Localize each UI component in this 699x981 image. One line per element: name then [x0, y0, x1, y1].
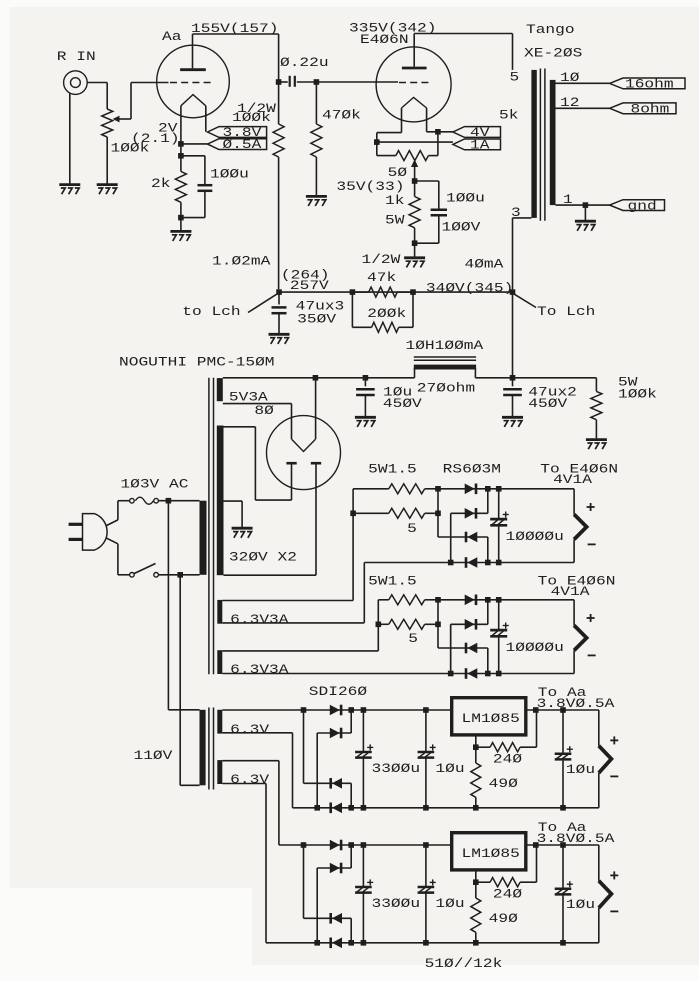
wire winding4 top to sec4: [222, 760, 279, 762]
svg-text:Ø.5A: Ø.5A: [223, 137, 262, 152]
wire switch to PT: [158, 574, 199, 576]
PT2 core: [208, 708, 210, 790]
node 490 bottom (reg sec3): [473, 805, 479, 811]
wire B+ down to filter: [512, 292, 514, 378]
node 4V tag junction: [435, 129, 441, 135]
svg-text:1ØØk: 1ØØk: [618, 387, 657, 402]
node 10u top (reg sec4): [423, 842, 429, 848]
node ADJ (reg sec4): [473, 879, 479, 885]
node 47ux2 junction: [510, 375, 516, 381]
svg-text:1k: 1k: [385, 193, 405, 208]
svg-text:4V1A: 4V1A: [553, 472, 592, 487]
PT2 6.3V winding 1: [217, 710, 222, 734]
node out 10u bottom (reg sec4): [560, 940, 566, 946]
ground (V2 cathode): [404, 256, 425, 259]
svg-text:49Ø: 49Ø: [489, 911, 518, 926]
svg-text:1ØØu: 1ØØu: [210, 167, 249, 182]
PT HV winding 320Vx2: [217, 426, 224, 576]
diode D4 (reg sec4): [329, 938, 332, 949]
output connector (heater sec1): [573, 489, 575, 515]
capacitor 10000u (heater sec1): [498, 489, 500, 519]
output connector (reg sec4): [598, 845, 600, 881]
svg-text:6.3V3A: 6.3V3A: [230, 612, 289, 627]
wire AC to lower PT primary top: [167, 501, 169, 710]
wire AC2 vertical (heater sec2): [450, 624, 452, 673]
label + (output) (heater sec2): [587, 617, 595, 619]
resistor 490 (reg sec3): [475, 747, 477, 763]
wire rail after choke: [475, 377, 596, 379]
node 10u top (reg sec3): [423, 707, 429, 713]
OPT secondary winding: [550, 80, 556, 205]
ground (V1 cathode): [170, 230, 191, 233]
tag 16ohm: [610, 78, 685, 89]
node + rail (reg sec3): [348, 707, 354, 713]
RCA input jack J1: [64, 71, 88, 95]
label + (out) (reg sec3): [610, 739, 618, 741]
svg-text:5: 5: [407, 521, 417, 536]
node - rail row4 (reg sec3): [348, 805, 354, 811]
svg-text:24Ø: 24Ø: [493, 752, 522, 767]
capacitor 10u (in) (reg sec3): [425, 710, 427, 751]
wire cathode to 0.5A tag: [181, 143, 208, 145]
svg-text:1.Ø2mA: 1.Ø2mA: [212, 254, 271, 269]
label - (output) (heater sec2): [588, 654, 596, 656]
node AC2 row4 (reg sec4): [314, 940, 320, 946]
svg-text:8ohm: 8ohm: [631, 102, 670, 117]
diode D1 (reg sec3): [330, 705, 340, 716]
svg-text:Ø.22u: Ø.22u: [280, 55, 329, 70]
V1 filament/cathode: [181, 95, 206, 106]
node D4 row AC2 (heater sec1): [448, 560, 454, 566]
node rectifier output: [313, 375, 319, 381]
svg-text:5Ø: 5Ø: [388, 165, 408, 180]
resistor R3 2k: [175, 171, 186, 202]
wire winding2 top to sec2: [222, 650, 378, 652]
svg-text:34ØV(345): 34ØV(345): [426, 281, 513, 296]
tag 1A: [453, 139, 501, 150]
ground (input jack): [59, 183, 80, 186]
wire V3 fil right leg: [315, 378, 317, 439]
wire bridge row3 (heater sec2): [438, 647, 488, 649]
node ADJ (reg sec3): [473, 744, 479, 750]
svg-text:5: 5: [510, 70, 520, 85]
diode D1 (heater sec2): [465, 595, 475, 606]
node D4 row AC2 (heater sec2): [448, 671, 454, 677]
svg-text:1Ø: 1Ø: [560, 70, 580, 85]
resistor 240 (reg sec4): [476, 881, 490, 883]
wire jack to volume pot: [87, 82, 107, 84]
svg-text:1ØØØØu: 1ØØØØu: [506, 529, 564, 544]
PT core: [208, 378, 210, 674]
wire OPT pin1: [556, 204, 610, 206]
fuse F1: [130, 498, 135, 503]
node filter cap bottom (heater sec2): [496, 671, 502, 677]
wire row3 (reg sec4): [304, 917, 352, 919]
PT primary winding: [200, 501, 207, 575]
diode D3 (heater sec1): [465, 532, 468, 543]
node lower AC junction: [177, 572, 183, 578]
wire regulator output (reg sec4): [526, 844, 599, 846]
capacitor 10u (in) (reg sec4): [425, 845, 427, 886]
svg-text:to Lch: to Lch: [182, 304, 240, 319]
switch SW1: [130, 573, 135, 578]
node B+ 340V: [510, 289, 516, 295]
node plate/coupling junction: [276, 79, 282, 85]
wire input rail row1 (reg sec3): [222, 709, 451, 711]
OPT core: [539, 69, 541, 221]
regulator U LM1085 box (reg sec4): [452, 833, 526, 870]
pot wiper arrow: [113, 116, 120, 123]
diode D4 (reg sec3): [329, 803, 332, 814]
node 490 bottom (reg sec4): [473, 940, 479, 946]
label + (output) (heater sec1): [587, 506, 595, 508]
node resistor pair right (heater sec2): [435, 622, 441, 628]
svg-text:Aa: Aa: [162, 29, 182, 44]
svg-text:6.3V3A: 6.3V3A: [230, 662, 289, 677]
node R3/C2 bottom junction: [178, 215, 184, 221]
label - (out) (reg sec3): [610, 775, 618, 777]
diode D2 (reg sec4): [330, 863, 340, 874]
node 240 top (reg sec3): [533, 707, 539, 713]
svg-text:XE-2ØS: XE-2ØS: [524, 46, 583, 61]
diode D3 (reg sec3): [329, 778, 332, 789]
node resistor pair right top (heater sec2): [435, 597, 441, 603]
svg-text:4V1A: 4V1A: [551, 584, 590, 599]
wire AC1 vertical (heater sec1): [437, 489, 439, 537]
wire ADJ pin (reg sec4): [475, 870, 477, 882]
wire V2 fil right leg: [426, 108, 428, 132]
ground (R8): [586, 438, 607, 441]
diode D1 (reg sec4): [330, 840, 340, 851]
svg-text:2ØØk: 2ØØk: [367, 306, 406, 321]
node AC1 (reg sec3): [301, 707, 307, 713]
choke 10H100mA: [414, 368, 416, 378]
svg-text:5W1.5: 5W1.5: [368, 462, 417, 477]
svg-text:1Øu: 1Øu: [566, 897, 595, 912]
wire to 1A tag: [377, 141, 453, 143]
wire hum pot right: [437, 132, 439, 156]
wire To Lch (diagonal): [515, 294, 537, 307]
wire AC2 vertical (reg sec3): [316, 733, 318, 808]
wire V2 fil left leg: [401, 108, 403, 133]
capacitor 10u (out) (reg sec4): [562, 845, 564, 888]
V3 right plate: [311, 462, 321, 465]
node V1 cathode bias point: [178, 141, 184, 147]
ground (C4): [269, 333, 290, 336]
wire right plate to HV bottom: [224, 574, 317, 576]
wire row2 (reg sec4): [317, 867, 351, 869]
diode D2 (reg sec3): [330, 728, 340, 739]
wire winding1 top to sec1: [222, 600, 353, 602]
svg-text:33ØØu: 33ØØu: [372, 761, 421, 776]
wire regulator output (reg sec3): [526, 709, 599, 711]
PT 5V3A winding: [217, 378, 223, 401]
node R5/C3 bottom: [412, 240, 418, 246]
node D3 anode (heater sec2): [485, 671, 491, 677]
PT2 primary winding: [200, 710, 206, 786]
svg-text:LM1Ø85: LM1Ø85: [462, 846, 520, 861]
svg-text:To Lch: To Lch: [537, 304, 595, 319]
tag gnd: [610, 200, 665, 211]
node B+ 257V: [276, 289, 282, 295]
wire row2 (reg sec3): [317, 732, 351, 734]
capacitor C5 10u 450V: [364, 378, 366, 387]
diode D3 (reg sec4): [329, 913, 332, 924]
svg-text:6.3V: 6.3V: [230, 772, 269, 787]
wire to Lch (diagonal): [248, 294, 277, 312]
svg-text:1Øu: 1Øu: [435, 896, 464, 911]
resistor R2 100k 1/2W (plate load): [273, 124, 284, 157]
V2 grid (dashed): [399, 82, 432, 84]
ground (C5): [355, 416, 376, 419]
regulator U LM1085 box (reg sec3): [452, 698, 526, 735]
node 1A junction: [374, 139, 380, 145]
resistor R7 200k: [351, 292, 353, 327]
V2 plate: [402, 67, 427, 70]
svg-text:1/2W: 1/2W: [362, 252, 401, 267]
node AC1 (reg sec4): [301, 842, 307, 848]
svg-text:1: 1: [563, 192, 573, 207]
svg-text:1ØØØØu: 1ØØØØu: [506, 640, 564, 655]
wire 335V plate rail: [414, 33, 512, 35]
wire main B+ filter rail: [223, 377, 415, 379]
hum pot 50 ohm: [396, 151, 429, 161]
capacitor 3300u (reg sec4): [362, 845, 364, 886]
capacitor C3 100u 100V: [415, 180, 439, 182]
svg-text:6.3V: 6.3V: [230, 722, 269, 737]
V3 left plate: [286, 462, 296, 465]
wire bridge row1 (heater sec2): [438, 599, 574, 601]
node cathode bias node 35V: [412, 178, 418, 184]
wire plug lower: [106, 538, 118, 544]
node pin1 ground junction: [583, 202, 589, 208]
output connector (reg sec3): [598, 710, 600, 746]
svg-text:RS6Ø3M: RS6Ø3M: [443, 462, 501, 477]
PT 6.3V3A winding 2: [217, 650, 222, 674]
node filter cap top (heater sec2): [496, 597, 502, 603]
resistor 490 (reg sec4): [475, 882, 477, 898]
wire HV center tap: [224, 500, 243, 502]
wire left plate to HV top: [255, 499, 291, 501]
wire bridge row4 (heater sec2): [451, 673, 574, 675]
wire AC1 vertical (reg sec3): [303, 710, 305, 783]
wire winding3 bottom to sec3 gnd: [222, 732, 292, 734]
tag 3.8V: [208, 127, 267, 138]
wire plug upper: [106, 520, 118, 526]
svg-text:33ØØu: 33ØØu: [372, 896, 421, 911]
diode D4 (heater sec1): [465, 557, 468, 568]
wire winding1 bottom to sec1: [222, 622, 364, 624]
svg-text:5W: 5W: [385, 213, 405, 228]
wire row3 (reg sec3): [304, 782, 352, 784]
tag 4V: [453, 127, 501, 138]
wire bridge row2 (heater sec1): [451, 512, 488, 514]
node 3300u bottom (reg sec4): [361, 940, 367, 946]
wire AC1 vertical (reg sec4): [303, 845, 305, 918]
PT 6.3V3A winding 1: [217, 600, 222, 624]
resistor R5 1k 5W: [414, 181, 416, 197]
wire AC2 vertical (reg sec4): [316, 868, 318, 943]
node cathode/cap junction: [178, 153, 184, 159]
wire bridge row4 (heater sec1): [364, 562, 574, 564]
hum pot wiper: [411, 159, 418, 167]
svg-text:47Øk: 47Øk: [322, 108, 361, 123]
node 240 top (reg sec4): [533, 842, 539, 848]
svg-text:5W1.5: 5W1.5: [368, 574, 417, 589]
node D1 cathode (heater sec1): [485, 486, 491, 492]
svg-text:35V(33): 35V(33): [336, 179, 404, 194]
node 3300u bottom (reg sec3): [361, 805, 367, 811]
resistor 5W 1.5ohm (b) (heater sec2): [378, 623, 389, 625]
resistor 240 (reg sec3): [476, 746, 490, 748]
wire B+ rail 257-340: [279, 291, 513, 293]
capacitor 10000u (heater sec2): [498, 600, 500, 630]
resistor 5W 1.5ohm (a) (heater sec2): [378, 599, 389, 601]
node resistor pair right (heater sec1): [435, 511, 441, 517]
svg-text:5: 5: [408, 631, 418, 646]
node resistor pair left (heater sec2): [376, 622, 382, 628]
diode D1 (heater sec1): [465, 484, 475, 495]
triode V2 E406N envelope: [376, 47, 451, 122]
svg-text:4ØmA: 4ØmA: [465, 257, 504, 272]
svg-text:SDI26Ø: SDI26Ø: [309, 684, 368, 699]
svg-text:24Ø: 24Ø: [493, 887, 522, 902]
ground (pot): [97, 183, 118, 186]
resistor R6 47k 1/2W: [352, 291, 368, 293]
svg-text:2k: 2k: [151, 176, 171, 191]
svg-text:gnd: gnd: [628, 198, 657, 213]
diode D4 (heater sec2): [465, 668, 468, 679]
svg-text:8Ø: 8Ø: [254, 403, 274, 418]
wire winding4 bottom to sec4 gnd: [222, 783, 266, 785]
svg-text:35ØV: 35ØV: [297, 312, 336, 327]
wire ground rail row4 (reg sec4): [266, 942, 599, 944]
resistor R8 100k 5W: [595, 378, 597, 392]
node out 10u bottom (reg sec3): [560, 805, 566, 811]
tag 0.5A: [208, 139, 267, 150]
wire fuse to PT: [158, 500, 199, 502]
node D1 cathode (heater sec2): [485, 597, 491, 603]
wire V3 fil left leg: [291, 404, 293, 440]
node upper AC junction: [166, 498, 172, 504]
wire OPT pin10: [556, 82, 610, 84]
svg-text:Tango: Tango: [526, 22, 575, 37]
node out 10u top (reg sec4): [560, 842, 566, 848]
node 10u junction: [363, 375, 369, 381]
svg-text:5V3A: 5V3A: [229, 390, 268, 405]
capacitor C2 100u: [181, 155, 205, 157]
diode D3 (heater sec2): [465, 643, 468, 654]
node AC2 row4 (reg sec3): [314, 805, 320, 811]
svg-text:1Ø3V AC: 1Ø3V AC: [120, 477, 188, 492]
V1 plate: [180, 68, 206, 71]
node + rail (reg sec4): [348, 842, 354, 848]
V1 grid (dashed): [170, 82, 211, 84]
wire bridge row2 (heater sec2): [451, 623, 488, 625]
node filter cap bottom (heater sec1): [496, 560, 502, 566]
svg-text:49Ø: 49Ø: [489, 776, 518, 791]
label - (out) (reg sec4): [610, 910, 618, 912]
capacitor C1 0.22u: [279, 81, 288, 83]
label - (output) (heater sec1): [588, 543, 596, 545]
resistor 5W 1.5ohm (b) (heater sec1): [353, 512, 389, 514]
PT2 6.3V winding 2: [217, 760, 222, 784]
svg-text:1Øu: 1Øu: [566, 762, 595, 777]
svg-text:3.8VØ.5A: 3.8VØ.5A: [537, 831, 615, 846]
diode D2 (heater sec1): [465, 508, 475, 519]
svg-text:16ohm: 16ohm: [625, 77, 674, 92]
ground (HV center tap): [232, 527, 253, 530]
node resistor pair left (heater sec1): [350, 511, 356, 517]
wire 155V plate rail: [193, 33, 279, 35]
wire AC to lower PT primary bottom: [179, 575, 181, 786]
ground (C6): [502, 416, 523, 419]
OPT primary winding: [531, 70, 536, 218]
node resistor pair right top (heater sec1): [435, 486, 441, 492]
wire AC2 vertical (heater sec1): [450, 513, 452, 562]
wire bridge row1 (heater sec1): [438, 488, 574, 490]
svg-text:1Øu: 1Øu: [435, 761, 464, 776]
tag 8ohm: [610, 103, 676, 114]
wire input rail row1 (reg sec4): [279, 844, 452, 846]
svg-text:257V: 257V: [290, 278, 329, 293]
capacitor C6 47ux2 450V: [512, 378, 514, 387]
node 47k/200k right: [410, 289, 416, 295]
node D3 anode (heater sec1): [485, 560, 491, 566]
diode D2 (heater sec2): [465, 619, 475, 630]
svg-text:1ØØk: 1ØØk: [232, 110, 271, 125]
node - rail row4 (reg sec4): [348, 940, 354, 946]
V3 filament: [292, 439, 316, 451]
capacitor 3300u (reg sec3): [362, 710, 364, 751]
svg-text:11ØV: 11ØV: [134, 748, 173, 763]
svg-text:45ØV: 45ØV: [528, 396, 567, 411]
svg-text:12: 12: [560, 95, 579, 110]
ground (OPT secondary): [575, 220, 596, 223]
output connector (heater sec2): [573, 600, 575, 626]
resistor 5W 1.5ohm (a) (heater sec1): [353, 488, 389, 490]
node grid-leak junction: [314, 79, 320, 85]
svg-text:32ØV X2: 32ØV X2: [229, 550, 297, 565]
potentiometer VR1 100k: [102, 109, 113, 137]
wire ADJ pin (reg sec3): [475, 735, 477, 747]
V2 filament/cathode: [402, 97, 427, 108]
svg-text:1A: 1A: [470, 137, 490, 152]
wire OPT pin3: [513, 217, 532, 219]
label + (out) (reg sec4): [610, 874, 618, 876]
wire ground rail row4 (reg sec3): [293, 807, 599, 809]
capacitor C4 47ux3 350V: [278, 292, 280, 304]
svg-text:NOGUTHI PMC-15ØM: NOGUTHI PMC-15ØM: [119, 355, 275, 370]
AC plug: [69, 523, 83, 526]
svg-text:27Øohm: 27Øohm: [417, 381, 476, 396]
node 10u bottom (reg sec3): [423, 805, 429, 811]
svg-text:1ØH1ØØmA: 1ØH1ØØmA: [406, 338, 484, 353]
node filter cap top (heater sec1): [496, 486, 502, 492]
wire V1 cathode right leg: [205, 106, 207, 132]
svg-text:3.8VØ.5A: 3.8VØ.5A: [537, 696, 615, 711]
wire to V2 grid: [316, 81, 398, 83]
triode V1 Aa envelope: [157, 45, 230, 118]
svg-text:LM1Ø85: LM1Ø85: [462, 711, 520, 726]
wire winding2 bottom to sec2: [222, 673, 450, 675]
wire AC1 vertical (heater sec2): [437, 600, 439, 648]
node out 10u top (reg sec3): [560, 707, 566, 713]
svg-text:(2.1): (2.1): [131, 131, 180, 146]
resistor R4 470k: [315, 82, 317, 124]
wire bridge row3 (heater sec1): [438, 536, 488, 538]
svg-text:1ØØu: 1ØØu: [446, 191, 485, 206]
